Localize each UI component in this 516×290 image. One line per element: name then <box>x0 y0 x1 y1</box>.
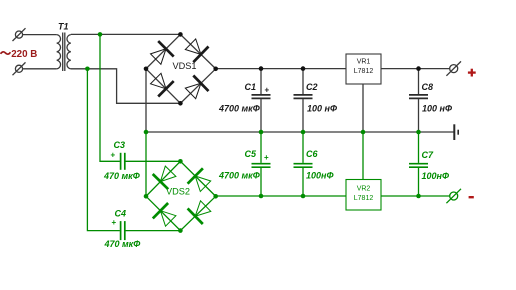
capacitor C6 leads <box>302 132 304 163</box>
wire C4 to VDS2 bottom <box>126 230 181 232</box>
capacitor C7 leads <box>418 132 420 163</box>
C6 plates <box>294 163 313 165</box>
C7 plates <box>409 163 428 165</box>
svg-text:VDS1: VDS1 <box>173 61 197 71</box>
C8 plates <box>409 94 428 96</box>
svg-text:C8: C8 <box>422 82 434 92</box>
wire primary bottom <box>23 68 57 70</box>
svg-text:C5: C5 <box>245 149 257 159</box>
wire primary top <box>23 34 57 36</box>
- output terminal <box>446 189 461 203</box>
node VDS1 bottom <box>178 101 183 106</box>
wire + rail VDS1 to VR1 <box>216 68 346 70</box>
- rail VDS2 to VR2 <box>216 195 346 197</box>
svg-text:4700 мкФ: 4700 мкФ <box>218 171 260 181</box>
green drop wire from bottom AC to C4 <box>87 69 120 231</box>
svg-text:L7812: L7812 <box>354 68 374 75</box>
capacitor plates black <box>252 95 429 99</box>
input terminal bottom <box>13 62 26 75</box>
wire ground to VDS2 left <box>145 132 147 196</box>
svg-text:VDS2: VDS2 <box>166 187 190 197</box>
svg-text:C7: C7 <box>422 150 434 160</box>
svg-text:+: + <box>112 218 117 227</box>
svg-text:C3: C3 <box>114 140 126 150</box>
diode VDS1 bottom-right <box>185 76 208 99</box>
capacitor C5 leads <box>260 132 262 163</box>
svg-text:+: + <box>265 85 270 94</box>
wire secondary bottom step to VDS1 bottom <box>71 69 181 104</box>
node VDS2 left <box>144 194 149 199</box>
label plus output <box>468 69 476 77</box>
+ output terminal <box>446 61 461 75</box>
ground rail <box>146 131 454 133</box>
diode VDS2 bottom-left <box>153 203 176 226</box>
svg-text:VR1: VR1 <box>357 59 371 66</box>
svg-text:L7812: L7812 <box>354 195 374 202</box>
svg-text:100нФ: 100нФ <box>422 171 449 181</box>
node green top AC tap <box>98 32 103 37</box>
wire secondary top to VDS1 top <box>71 33 181 35</box>
node C1 top <box>259 66 264 71</box>
green junction dots <box>85 32 421 233</box>
svg-text:C1: C1 <box>245 82 257 92</box>
diode VDS1 bottom-left <box>151 73 174 96</box>
capacitor C2 leads <box>302 69 304 95</box>
input terminal top <box>13 28 26 41</box>
green capacitor plates <box>121 153 428 240</box>
VDS2 diodes <box>153 166 211 226</box>
svg-text:C6: C6 <box>306 149 318 159</box>
svg-text:4700 мкФ: 4700 мкФ <box>218 104 260 114</box>
node C5 bottom <box>259 194 264 199</box>
green drop wire from top AC to C3 <box>100 34 120 161</box>
VR1 ground pin <box>362 84 364 132</box>
capacitor C8 leads <box>418 69 420 95</box>
svg-text:100нФ: 100нФ <box>306 171 333 181</box>
svg-text:100 нФ: 100 нФ <box>307 104 337 114</box>
C4 plates <box>120 221 122 240</box>
node C2 top <box>301 66 306 71</box>
diode VDS2 bottom-right <box>188 201 211 224</box>
wire C3 to VDS2 top <box>126 160 181 162</box>
node VDS2 right <box>213 194 218 199</box>
label ~220 V <box>1 52 11 54</box>
black junction dots <box>144 32 421 106</box>
VDS1 diamond <box>146 34 216 103</box>
node VDS1 left <box>144 67 149 72</box>
svg-text:470 мкФ: 470 мкФ <box>103 171 140 181</box>
node C6 bottom <box>301 194 306 199</box>
transformer T1 primary winding <box>57 35 61 69</box>
node C7 bottom <box>416 194 421 199</box>
svg-text:+: + <box>111 151 116 160</box>
svg-text:C2: C2 <box>306 82 318 92</box>
svg-text:VR2: VR2 <box>357 186 371 193</box>
node VDS1 top <box>178 32 183 37</box>
node green bottom AC tap <box>85 67 90 72</box>
node C1/C5 ground <box>259 130 264 135</box>
svg-text:470 мкФ: 470 мкФ <box>104 239 141 249</box>
VR2 ground pin <box>362 132 364 180</box>
node C8 top <box>416 66 421 71</box>
C1 plates <box>252 94 271 96</box>
GREEN SECTION <box>87 34 461 230</box>
ground symbol <box>454 124 458 140</box>
C2 plates <box>294 94 313 96</box>
diode VDS1 top-right <box>185 39 208 62</box>
VDS1 diodes <box>151 39 209 99</box>
svg-text:C4: C4 <box>115 209 127 219</box>
node VDS1 right <box>213 67 218 72</box>
svg-text:220 В: 220 В <box>11 49 37 60</box>
VR1 box <box>346 54 381 84</box>
VDS2 diamond <box>146 161 216 230</box>
label minus output <box>469 196 474 198</box>
node VDS2 bottom <box>178 228 183 233</box>
diode VDS2 top-right <box>188 168 211 191</box>
node C2/C6 ground <box>301 130 306 135</box>
svg-text:+: + <box>264 153 269 162</box>
transformer core <box>62 33 64 72</box>
diode VDS2 top-left <box>153 166 176 189</box>
VR2 box <box>346 180 381 211</box>
transformer T1 secondary winding <box>67 35 71 69</box>
C5 plates <box>252 163 271 165</box>
svg-text:T1: T1 <box>58 22 69 32</box>
node VDS2 top <box>178 159 183 164</box>
- rail VR2 to terminal <box>381 195 450 197</box>
node ground-left <box>144 130 149 135</box>
svg-text:100 нФ: 100 нФ <box>422 104 452 114</box>
capacitor C1 leads <box>260 69 262 95</box>
diode VDS1 top-left <box>151 41 174 64</box>
node VR ground <box>361 130 366 135</box>
wire VDS1 left corner down to ground rail <box>145 69 147 132</box>
wire + rail VR1 to terminal <box>381 68 450 70</box>
C3 plates <box>120 153 122 170</box>
node C8/C7 ground <box>416 130 421 135</box>
